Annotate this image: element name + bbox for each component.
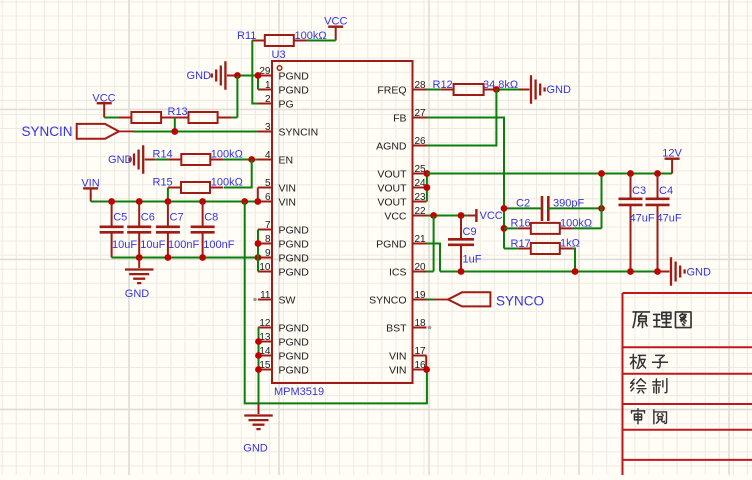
no-connect dot pin 11 SW (253, 298, 257, 302)
wire caps ground rail to pin 9 (112, 257, 258, 259)
svg-text:R13: R13 (168, 106, 188, 118)
pin 3 SYNCIN (left) (258, 122, 318, 138)
svg-text:26: 26 (415, 136, 427, 147)
svg-text:VCC: VCC (92, 93, 115, 105)
svg-text:1kΩ: 1kΩ (560, 238, 580, 250)
svg-text:GND: GND (187, 70, 212, 82)
junction VOUT rail / C3 (627, 170, 634, 177)
pin 6 VIN (left) (258, 192, 296, 208)
svg-text:27: 27 (415, 108, 427, 119)
svg-text:R11: R11 (237, 30, 256, 42)
power symbol VCC (468, 209, 503, 222)
junction VCC/C9 (458, 212, 465, 219)
svg-text:VCC: VCC (384, 210, 407, 222)
svg-text:GND: GND (243, 443, 268, 455)
junction VIN rail C6 (136, 198, 143, 205)
wire PGND pins 7-10 vertical (257, 230, 259, 272)
pin 15 PGND (left) (258, 360, 309, 376)
junction pin 13 (255, 338, 262, 345)
power symbol VCC (top, above R11) (324, 16, 347, 41)
svg-text:R16: R16 (511, 218, 531, 230)
resistor R13 body B (175, 112, 231, 123)
power symbol VCC (left, above R13) (92, 93, 115, 118)
capacitor C2 (516, 196, 584, 221)
svg-text:6: 6 (265, 192, 271, 203)
svg-text:C8: C8 (204, 212, 218, 224)
junction VCC/ICS branch (430, 212, 437, 219)
junction SYNCIN / R13 midpoint (171, 128, 178, 135)
junction VOUT rail / C4 (654, 170, 661, 177)
wire from junction x237 down to R13 output (236, 76, 238, 118)
wire R12 right to ground symbol (497, 89, 519, 91)
svg-text:VOUT: VOUT (377, 196, 407, 208)
capacitor C7 (156, 202, 200, 258)
svg-text:C7: C7 (170, 212, 184, 224)
title text row 2 (board) (630, 354, 667, 368)
svg-text:4: 4 (265, 150, 271, 161)
wire R13 midpoint down to SYNCIN net (174, 118, 176, 132)
junction at GND wire x237 (234, 72, 241, 79)
wire VIN under chip to pins 16/17 (245, 202, 427, 404)
svg-text:MPM3519: MPM3519 (274, 386, 324, 398)
svg-text:PGND: PGND (279, 238, 310, 250)
capacitor C9 (448, 216, 482, 272)
svg-text:R14: R14 (153, 149, 173, 161)
junction ground rail R17 (572, 268, 579, 275)
junction VIN rail C7/R15 (165, 198, 172, 205)
svg-text:PGND: PGND (279, 70, 310, 82)
svg-text:PGND: PGND (279, 266, 310, 278)
pin 23 VOUT (right) (377, 192, 426, 208)
svg-text:PG: PG (279, 98, 294, 110)
svg-text:1uF: 1uF (463, 254, 482, 266)
title block frame (623, 293, 752, 475)
wire FB node to R16 (504, 227, 518, 229)
junction EN node (248, 156, 255, 163)
junction pin 15 (255, 366, 262, 373)
wire FB node to R17 (504, 248, 518, 250)
pin 22 VCC (right) (384, 206, 426, 222)
port SYNCIN (77, 124, 133, 139)
svg-text:GND: GND (687, 267, 712, 279)
svg-text:C3: C3 (632, 185, 646, 197)
pin 24 VOUT (right) (377, 178, 426, 194)
svg-text:19: 19 (415, 290, 427, 301)
svg-text:PGND: PGND (279, 252, 310, 264)
wire VCC stem to R13 first body (104, 117, 118, 119)
svg-text:11: 11 (260, 290, 271, 301)
svg-text:7: 7 (265, 220, 271, 231)
ground (519, 75, 545, 104)
pin 25 VOUT (right) (377, 164, 426, 180)
pin 14 PGND (left) (258, 346, 309, 362)
pin 1 PGND (left) (258, 80, 309, 96)
svg-text:AGND: AGND (376, 140, 407, 152)
title text row 4 (review) (632, 409, 667, 424)
svg-text:PGND: PGND (279, 336, 310, 348)
pin 2 PG (left) (258, 94, 294, 110)
junction VIN rail at pin 6 (254, 198, 261, 205)
svg-text:C4: C4 (659, 185, 673, 197)
pin5-pin6 connecting stub (257, 188, 259, 202)
svg-text:C2: C2 (516, 198, 530, 210)
wire R14 to pin 4 EN (223, 159, 258, 161)
svg-text:U3: U3 (272, 49, 286, 61)
svg-text:ICS: ICS (389, 266, 407, 278)
wire VCC pin 22 to VCC symbol (427, 215, 468, 217)
capacitor C4 (646, 174, 682, 272)
svg-text:10: 10 (259, 262, 271, 273)
wire AGND pin 26 up to R12 node (427, 90, 497, 146)
svg-text:100nF: 100nF (203, 239, 234, 251)
svg-text:C5: C5 (113, 212, 127, 224)
junction at pin 29 end (255, 72, 262, 79)
svg-text:VCC: VCC (324, 16, 347, 28)
wire pin 28 FREQ to R12 (427, 89, 441, 91)
resistor R15 (153, 177, 243, 194)
svg-text:PGND: PGND (279, 84, 310, 96)
svg-text:R17: R17 (511, 238, 531, 250)
svg-text:100kΩ: 100kΩ (211, 177, 243, 189)
svg-text:C6: C6 (141, 212, 155, 224)
pin 29 PGND (left) (258, 66, 309, 82)
pin 7 PGND (left) (258, 220, 309, 236)
svg-text:VOUT: VOUT (377, 182, 407, 194)
junction caps rail at pin 9 (255, 254, 262, 261)
svg-text:28: 28 (415, 80, 427, 91)
junction caps rail C7 (165, 254, 172, 261)
resistor R11 (237, 30, 327, 46)
ground (125, 258, 154, 284)
svg-text:EN: EN (279, 154, 294, 166)
junction at pin 16 (423, 366, 430, 373)
svg-text:22: 22 (415, 206, 427, 217)
wire SYNCO pin 19 to port (427, 299, 435, 301)
junction pin 24 (424, 184, 431, 191)
svg-text:PGND: PGND (279, 364, 310, 376)
wire VOUT rail to 12V (427, 173, 672, 175)
svg-text:10uF: 10uF (112, 239, 137, 251)
power symbol 12V (662, 148, 682, 174)
capacitor C6 (127, 202, 165, 258)
pin 17 VIN (right) (389, 346, 427, 362)
capacitor C5 (100, 202, 138, 258)
junction FB/C2 (501, 205, 508, 212)
svg-text:12: 12 (259, 318, 271, 329)
wire ICS pin to VCC branch (426, 271, 433, 273)
pin 26 AGND (right) (376, 136, 426, 152)
wire ground rail to GND symbol (440, 271, 659, 273)
svg-text:GND: GND (108, 154, 133, 166)
wire PGND pins 12-15 down to ground (258, 328, 260, 412)
svg-text:12V: 12V (662, 148, 682, 160)
svg-text:47uF: 47uF (630, 213, 655, 225)
svg-text:GND: GND (547, 84, 572, 96)
junction ground rail C4 (654, 268, 661, 275)
svg-text:GND: GND (125, 288, 150, 300)
svg-text:PGND: PGND (279, 224, 310, 236)
svg-text:SYNCIN: SYNCIN (279, 126, 319, 138)
svg-text:18: 18 (415, 318, 427, 329)
svg-text:23: 23 (415, 192, 427, 203)
svg-text:C9: C9 (463, 226, 477, 238)
svg-text:VIN: VIN (389, 364, 407, 376)
svg-text:VIN: VIN (279, 182, 297, 194)
svg-text:FB: FB (393, 112, 406, 124)
svg-text:PGND: PGND (376, 238, 407, 250)
title text row 1 (schematic) (633, 312, 691, 328)
port SYNCO (434, 292, 490, 306)
svg-text:5: 5 (265, 178, 271, 189)
svg-text:VOUT: VOUT (377, 168, 407, 180)
svg-text:R15: R15 (153, 177, 173, 189)
resistor R14 (153, 149, 243, 166)
pin16-pin17 connecting stub (425, 356, 427, 370)
svg-text:VIN: VIN (279, 196, 297, 208)
wire GND to R14 (155, 159, 168, 161)
wire R13 right end to vertical x237 (231, 117, 237, 119)
pin 5 VIN (left) (258, 178, 296, 194)
junction VOUT rail / feedback drop (598, 170, 605, 177)
pin 10 PGND (left) (258, 262, 309, 278)
wire R16 right to VOUT drop (573, 227, 602, 229)
svg-text:47uF: 47uF (657, 213, 682, 225)
wire R17 right down to ground rail (573, 249, 575, 272)
pin 13 PGND (left) (258, 332, 309, 348)
wire SYNCIN port to pin 3 (133, 131, 258, 133)
wire FB pin 27 to divider: down to C2/R16/R17 (427, 118, 505, 249)
pin 27 FB (right) (393, 108, 426, 124)
svg-text:1: 1 (265, 80, 271, 91)
svg-text:VIN: VIN (389, 350, 407, 362)
pin 28 FREQ (right) (377, 80, 426, 96)
svg-text:SYNCO: SYNCO (496, 294, 544, 309)
junction pin 25 (424, 170, 431, 177)
power symbol VIN (81, 177, 99, 201)
svg-text:SYNCIN: SYNCIN (22, 124, 73, 139)
svg-text:FREQ: FREQ (377, 84, 406, 96)
wire C2 right to VOUT drop (548, 207, 601, 209)
junction R12/AGND node (493, 86, 500, 93)
svg-text:BST: BST (386, 322, 407, 334)
wire VIN rail (91, 201, 258, 203)
wire R15 left end down to VIN rail (167, 188, 169, 202)
wire R11 left end down to pin 2 PG (252, 41, 258, 104)
wire VOUT drop from rail to R16 (601, 174, 603, 229)
resistor R13 body A (118, 112, 174, 123)
junction VIN rail under-chip branch (241, 198, 248, 205)
junction caps rail C8 (199, 254, 206, 261)
wire GND to pin 29 (237, 75, 258, 77)
ground (130, 145, 156, 174)
ground (659, 257, 685, 286)
wire R11 right end to VCC (307, 40, 336, 42)
svg-text:21: 21 (415, 234, 427, 245)
junction caps rail C6/GND (136, 254, 143, 261)
junction VIN rail C8 (199, 198, 206, 205)
ground (244, 404, 273, 430)
svg-text:20: 20 (415, 262, 427, 273)
pin 19 SYNCO (right) (369, 290, 426, 306)
resistor R16 (511, 218, 593, 234)
junction C2 right / VOUT drop (598, 205, 605, 212)
svg-text:3: 3 (265, 122, 271, 133)
junction ground rail C9 (458, 268, 465, 275)
svg-text:VIN: VIN (81, 177, 99, 189)
pin 18 BST (right) (386, 318, 426, 334)
resistor R17 (511, 238, 580, 255)
svg-text:PGND: PGND (279, 350, 310, 362)
no-connect dot pin 18 BST (428, 326, 432, 330)
svg-text:2: 2 (265, 94, 271, 105)
svg-text:8: 8 (265, 234, 271, 245)
pin 11 SW (left) (258, 290, 296, 306)
capacitor C8 (191, 202, 235, 258)
op-amp U3 MPM3519 chip body (272, 61, 413, 383)
junction ground rail C3 (627, 268, 634, 275)
svg-text:PGND: PGND (279, 322, 310, 334)
svg-text:9: 9 (265, 248, 271, 259)
pin 8 PGND (left) (258, 234, 309, 250)
wire VCC down to ICS pin 20 (433, 216, 435, 272)
pin 20 ICS (right) (389, 262, 427, 278)
svg-text:10uF: 10uF (140, 239, 165, 251)
wire VOUT pins 23-25 vertical (426, 174, 428, 202)
junction VIN rail C5 (108, 198, 115, 205)
resistor R12 (433, 79, 519, 95)
junction FB/R16 (501, 225, 508, 232)
wire jog pin29 to pin1 (257, 76, 259, 90)
capacitor C3 (619, 174, 655, 272)
pin 4 EN (left) (258, 150, 293, 166)
svg-text:100nF: 100nF (168, 239, 199, 251)
ground (212, 61, 238, 90)
title text row 3 (drawn) (630, 379, 666, 394)
pin 16 VIN (right) (389, 360, 427, 376)
pin 9 PGND (left) (258, 248, 309, 264)
svg-text:SW: SW (279, 294, 296, 306)
svg-text:17: 17 (415, 346, 427, 357)
pin 21 PGND (right) (376, 234, 426, 250)
svg-text:VCC: VCC (480, 210, 503, 222)
wire C2 left (504, 207, 542, 209)
svg-text:SYNCO: SYNCO (369, 294, 406, 306)
junction pin 8 (255, 240, 262, 247)
wire EN node down to R15 output (224, 160, 252, 188)
wire PGND pin 21 jog down to ground rail (427, 244, 441, 272)
junction pin 14 (255, 352, 262, 359)
pin 12 PGND (left) (258, 318, 309, 334)
